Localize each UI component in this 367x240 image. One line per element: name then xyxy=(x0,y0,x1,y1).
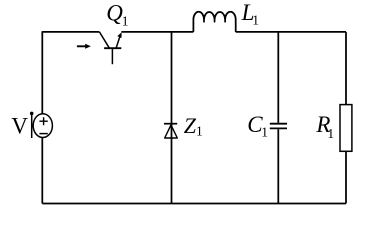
transistor Q1 base bar xyxy=(104,47,121,49)
svg-text:1: 1 xyxy=(261,125,268,140)
minus sign inside source xyxy=(39,133,47,135)
wire: top rail from Q1 to inductor xyxy=(121,31,193,33)
wire: right rail lower xyxy=(345,151,347,203)
resistor R1 box xyxy=(340,105,352,152)
voltage source V1 circle xyxy=(33,114,52,138)
svg-text:1: 1 xyxy=(196,123,203,138)
transistor Q1 collector lead xyxy=(116,35,120,49)
wire: current-direction arrow shaft near Q1 xyxy=(77,45,86,47)
transistor Q1 base lead (stub down) xyxy=(111,48,113,64)
arrowhead of current arrow xyxy=(85,44,91,49)
wire: C1 branch upper xyxy=(277,32,279,123)
wire: C1 branch lower xyxy=(277,129,279,203)
plus sign inside source xyxy=(39,117,47,125)
wire: right rail upper xyxy=(345,32,347,105)
wire: Z1 branch (vertical through diode) xyxy=(171,32,173,204)
inductor L1 (4 humps with cusps) xyxy=(193,12,235,32)
svg-text:1: 1 xyxy=(327,126,334,141)
diode Z1 triangle xyxy=(165,125,178,138)
svg-text:1: 1 xyxy=(252,12,259,27)
wire: top-left loop (left rail upper + top rail to Q1 emitter) xyxy=(42,32,99,114)
transistor Q1 collector arrowhead xyxy=(117,32,121,38)
capacitor C1 top plate xyxy=(270,123,287,125)
svg-text:Q: Q xyxy=(106,1,123,26)
diode Z1 cathode bar xyxy=(164,123,177,125)
transistor Q1 emitter lead xyxy=(99,32,109,48)
svg-text:V: V xyxy=(11,114,28,139)
voltage reference arrow line with dot xyxy=(31,115,33,139)
capacitor C1 bottom plate xyxy=(270,127,287,129)
wire: left rail lower xyxy=(41,138,43,204)
wire: bottom rail xyxy=(42,203,346,205)
svg-text:Z: Z xyxy=(184,113,197,138)
wire: top rail from inductor to right rail xyxy=(236,31,346,33)
svg-text:1: 1 xyxy=(122,13,129,28)
